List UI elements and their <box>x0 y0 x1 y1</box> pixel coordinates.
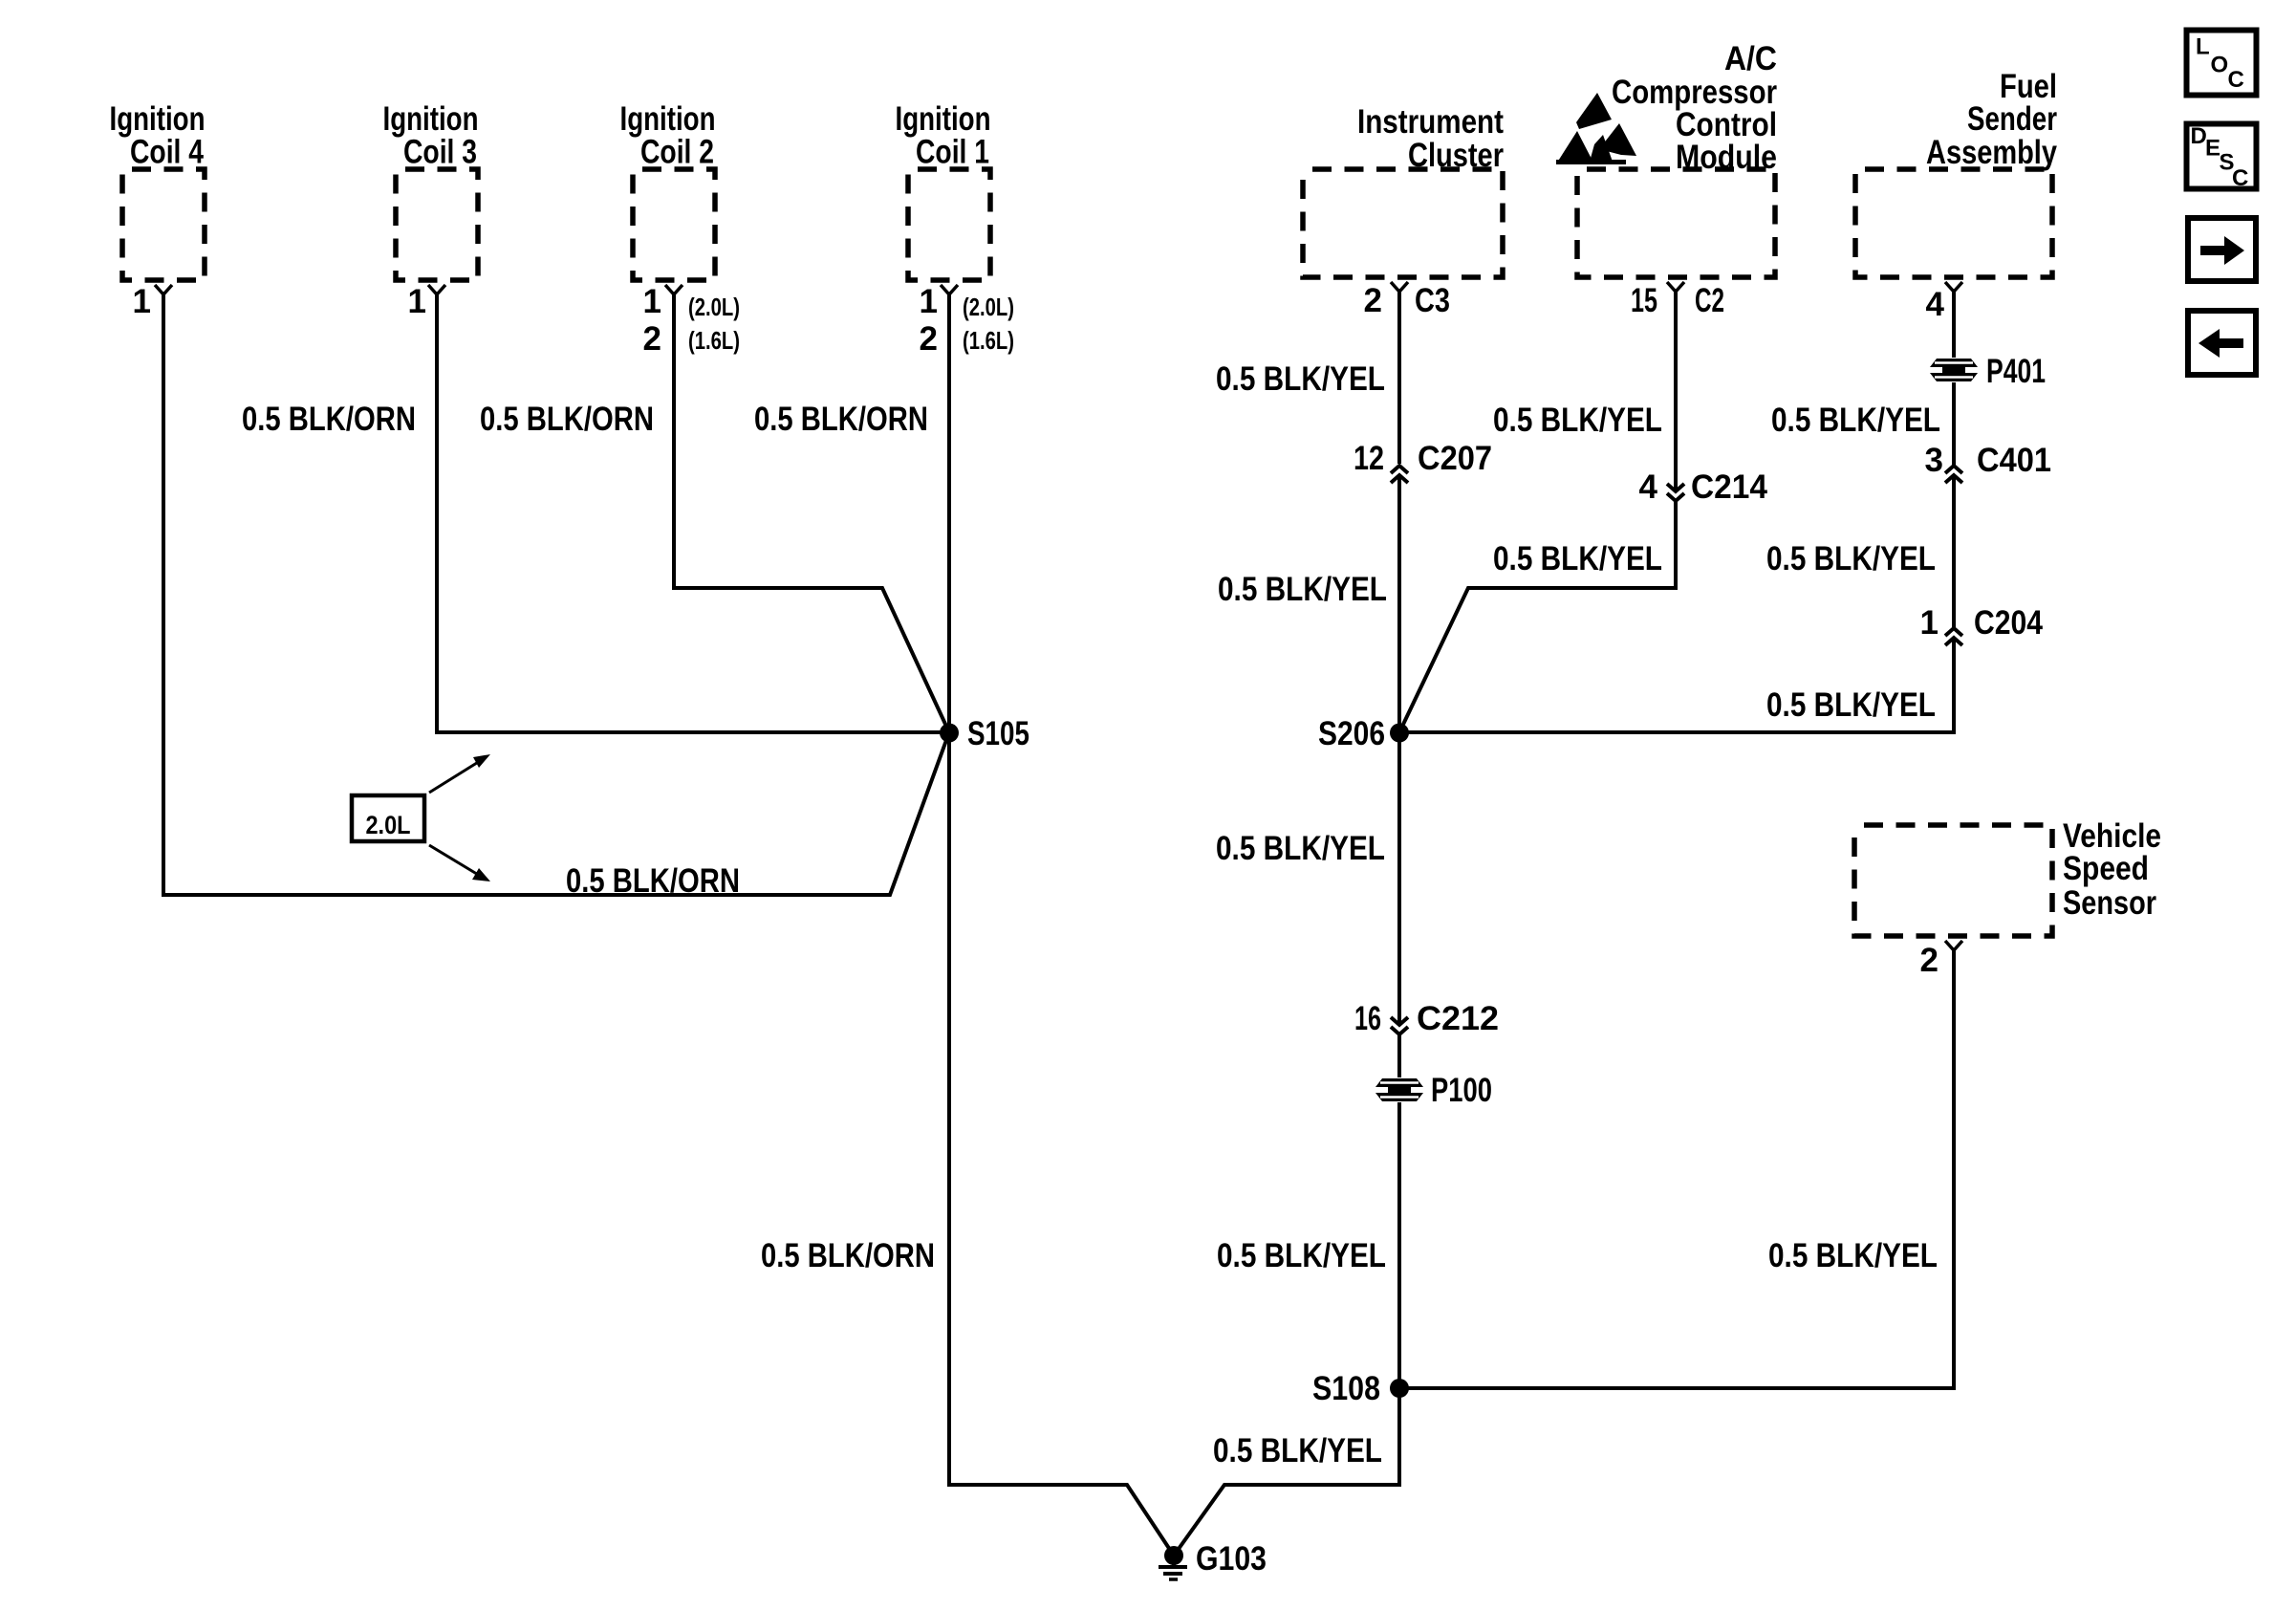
svg-text:1: 1 <box>133 283 151 320</box>
ignition coil 3 pin 1 <box>408 283 426 320</box>
legend box DESC <box>2187 123 2257 191</box>
vehicle speed sensor (component box) <box>1854 817 2161 950</box>
wire ignition coil 3 to S105 (0.5 BLK/ORN) <box>437 294 949 732</box>
wire S206 to fuel sender via C204/C401/P401 <box>1399 638 1954 732</box>
svg-text:0.5 BLK/ORN: 0.5 BLK/ORN <box>566 862 740 900</box>
svg-text:3: 3 <box>1925 442 1943 479</box>
A/C compressor control module (component box) <box>1577 40 1777 292</box>
legend box next-page arrow (right) <box>2188 218 2256 281</box>
svg-text:0.5 BLK/ORN: 0.5 BLK/ORN <box>242 401 416 438</box>
svg-text:P100: P100 <box>1431 1072 1492 1109</box>
svg-text:0.5 BLK/YEL: 0.5 BLK/YEL <box>1766 686 1936 724</box>
wire C401 to fuel sender segment <box>1952 292 1956 466</box>
svg-text:C2: C2 <box>1695 282 1724 319</box>
pass-through connector P100 symbol <box>1375 1077 1424 1102</box>
svg-text:L: L <box>2196 34 2210 60</box>
svg-text:Cluster: Cluster <box>1408 137 1504 174</box>
wire ignition coil 2 to S105 (0.5 BLK/ORN) <box>674 294 949 732</box>
connector C204 symbol (pin 1) <box>1945 628 1962 645</box>
svg-text:0.5 BLK/YEL: 0.5 BLK/YEL <box>1766 540 1936 577</box>
A/C module pin 15 <box>1631 282 1657 319</box>
instrument cluster pin 2 <box>1364 282 1382 319</box>
pass-through connector P401 symbol <box>1929 358 1979 382</box>
ignition coil 4 (component box) <box>110 100 206 294</box>
svg-text:S108: S108 <box>1312 1370 1380 1407</box>
2.0L callout arrow (to coil 4 wire) <box>429 845 490 881</box>
wire label 0.5 BLK/ORN (coil 3) <box>242 401 416 438</box>
svg-text:4: 4 <box>1639 468 1658 506</box>
svg-text:0.5 BLK/ORN: 0.5 BLK/ORN <box>761 1237 935 1274</box>
svg-text:0.5 BLK/YEL: 0.5 BLK/YEL <box>1213 1432 1382 1469</box>
svg-text:0.5 BLK/ORN: 0.5 BLK/ORN <box>480 401 654 438</box>
svg-text:C: C <box>2228 67 2244 93</box>
wire label 0.5 BLK/YEL (above S108) <box>1217 1237 1386 1274</box>
svg-text:2: 2 <box>1364 282 1382 319</box>
connector C204 name <box>1974 604 2043 642</box>
svg-text:O: O <box>2211 53 2229 78</box>
wire label 0.5 BLK/YEL (A/C lower) <box>1493 540 1662 577</box>
svg-text:2.0L: 2.0L <box>366 811 411 839</box>
ignition coil 3 (component box) <box>383 100 479 294</box>
svg-text:C204: C204 <box>1974 604 2043 642</box>
fuel sender pin 4 <box>1926 286 1945 323</box>
svg-text:Ignition: Ignition <box>383 100 479 138</box>
wire label 0.5 BLK/YEL (fuel mid) <box>1766 540 1936 577</box>
svg-text:0.5 BLK/YEL: 0.5 BLK/YEL <box>1216 830 1385 867</box>
wire C212 to S108 via P100 <box>1397 1034 1401 1388</box>
wire label 0.5 BLK/YEL (below S108) <box>1213 1432 1382 1469</box>
wire label 0.5 BLK/ORN (above G103) <box>761 1237 935 1274</box>
wire instrument cluster to C207 <box>1397 292 1401 464</box>
svg-text:(2.0L): (2.0L) <box>688 293 740 321</box>
2.0L callout arrow (to coil 3 wire) <box>429 754 490 793</box>
wire label 0.5 BLK/YEL (below S206) <box>1216 830 1385 867</box>
ignition coil 2 engine note (1.6L) <box>688 326 740 355</box>
svg-text:C401: C401 <box>1977 442 2051 479</box>
svg-text:S206: S206 <box>1318 715 1385 752</box>
connector C204 pin 1 label <box>1920 604 1939 642</box>
svg-text:1: 1 <box>920 283 938 320</box>
wire S108 to G103 (0.5 BLK/YEL) <box>1174 1388 1399 1556</box>
svg-text:Ignition: Ignition <box>896 100 991 138</box>
svg-text:S105: S105 <box>967 715 1029 752</box>
ESD-sensitive device icon <box>1556 93 1636 164</box>
wire C207 to C212 via S206 (0.5 BLK/YEL) <box>1397 475 1401 1025</box>
splice S108 name <box>1312 1370 1380 1407</box>
connector C214 pin 4 label <box>1639 468 1658 506</box>
wire label 0.5 BLK/YEL (cluster mid) <box>1218 571 1387 608</box>
svg-text:C3: C3 <box>1415 282 1450 319</box>
splice S206 (junction dot) <box>1390 724 1409 743</box>
svg-text:Module: Module <box>1676 139 1777 176</box>
svg-text:(2.0L): (2.0L) <box>963 293 1014 321</box>
legend box previous-page arrow (left) <box>2188 311 2256 375</box>
splice S105 (junction dot) <box>940 724 959 743</box>
svg-text:Sender: Sender <box>1967 100 2057 138</box>
ignition coil 2 (component box) <box>620 100 716 294</box>
wire label 0.5 BLK/ORN (2.0L note) <box>566 862 740 900</box>
svg-text:Instrument: Instrument <box>1357 103 1504 141</box>
A/C module connector C2 <box>1695 282 1724 319</box>
splice S206 name <box>1318 715 1385 752</box>
instrument cluster (component box) <box>1303 103 1504 292</box>
wire A/C module to C214 <box>1674 292 1678 491</box>
ignition coil 1 engine note (1.6L) <box>963 326 1014 355</box>
engine variant callout box 2.0L <box>352 795 424 841</box>
ignition coil 2 pin 1 <box>643 283 661 320</box>
ignition coil 4 pin 1 <box>133 283 151 320</box>
svg-text:0.5 BLK/YEL: 0.5 BLK/YEL <box>1218 571 1387 608</box>
svg-text:Assembly: Assembly <box>1926 134 2057 171</box>
ignition coil 1 (component box) <box>896 100 991 294</box>
svg-text:0.5 BLK/YEL: 0.5 BLK/YEL <box>1493 402 1662 439</box>
connector C207 name <box>1418 440 1492 477</box>
svg-text:Coil 3: Coil 3 <box>403 134 477 171</box>
svg-text:12: 12 <box>1354 440 1384 477</box>
connector P401 name <box>1986 353 2046 390</box>
svg-text:2: 2 <box>920 320 938 358</box>
svg-text:1: 1 <box>1920 604 1939 642</box>
svg-text:C207: C207 <box>1418 440 1492 477</box>
connector P100 name <box>1431 1072 1492 1109</box>
svg-text:1: 1 <box>408 283 426 320</box>
svg-text:Ignition: Ignition <box>620 100 716 138</box>
svg-text:15: 15 <box>1631 282 1657 319</box>
svg-text:Coil 4: Coil 4 <box>130 134 204 171</box>
ignition coil 1 engine note (2.0L) <box>963 293 1014 321</box>
svg-text:4: 4 <box>1926 286 1945 323</box>
vehicle speed sensor pin 2 <box>1920 942 1939 979</box>
wire label 0.5 BLK/YEL (fuel top) <box>1771 402 1940 439</box>
svg-text:C212: C212 <box>1417 1000 1499 1037</box>
wire C204 to C401 segment <box>1952 475 1956 628</box>
wire ignition coil 4 to S105 (0.5 BLK/ORN) <box>163 294 949 895</box>
connector C401 pin 3 label <box>1925 442 1943 479</box>
wire vehicle speed sensor to S108 (0.5 BLK/YEL) <box>1399 950 1954 1388</box>
svg-text:Coil 2: Coil 2 <box>640 134 714 171</box>
wire label 0.5 BLK/YEL (to C204) <box>1766 686 1936 724</box>
ignition coil 2 pin 2 <box>643 320 661 358</box>
svg-text:0.5 BLK/YEL: 0.5 BLK/YEL <box>1216 360 1385 398</box>
svg-text:0.5 BLK/YEL: 0.5 BLK/YEL <box>1768 1237 1938 1274</box>
svg-text:(1.6L): (1.6L) <box>688 326 740 355</box>
connector C214 symbol (pin 4) <box>1667 484 1684 501</box>
svg-text:0.5 BLK/YEL: 0.5 BLK/YEL <box>1771 402 1940 439</box>
svg-text:C: C <box>2232 165 2248 191</box>
svg-text:C214: C214 <box>1691 468 1768 506</box>
svg-text:(1.6L): (1.6L) <box>963 326 1014 355</box>
wire label 0.5 BLK/ORN (coil 2) <box>480 401 654 438</box>
svg-text:Sensor: Sensor <box>2063 884 2156 922</box>
wire label 0.5 BLK/YEL (speed sensor) <box>1768 1237 1938 1274</box>
wire S105 to G103 (0.5 BLK/ORN) <box>949 732 1174 1556</box>
connector C207 pin 12 label <box>1354 440 1384 477</box>
svg-text:2: 2 <box>1920 942 1939 979</box>
splice S108 (junction dot) <box>1390 1379 1409 1398</box>
fuel sender assembly (component box) <box>1855 68 2057 292</box>
splice S105 name <box>967 715 1029 752</box>
svg-text:Coil 1: Coil 1 <box>916 134 989 171</box>
wire label 0.5 BLK/ORN (coil 1) <box>754 401 928 438</box>
svg-text:2: 2 <box>643 320 661 358</box>
ground G103 symbol <box>1159 1546 1187 1579</box>
svg-text:A/C: A/C <box>1724 40 1777 77</box>
svg-text:P401: P401 <box>1986 353 2046 390</box>
svg-text:0.5 BLK/YEL: 0.5 BLK/YEL <box>1493 540 1662 577</box>
svg-text:Speed: Speed <box>2063 850 2149 887</box>
connector C214 name <box>1691 468 1768 506</box>
connector C212 symbol (pin 16) <box>1391 1017 1408 1034</box>
svg-text:0.5 BLK/YEL: 0.5 BLK/YEL <box>1217 1237 1386 1274</box>
ignition coil 1 pin 1 <box>920 283 938 320</box>
instrument cluster connector C3 <box>1415 282 1450 319</box>
wire label 0.5 BLK/YEL (cluster top) <box>1216 360 1385 398</box>
legend box LOC <box>2187 31 2257 96</box>
svg-text:0.5 BLK/ORN: 0.5 BLK/ORN <box>754 401 928 438</box>
svg-text:16: 16 <box>1354 1000 1381 1037</box>
connector C212 pin 16 label <box>1354 1000 1381 1037</box>
connector C207 symbol (pin 12) <box>1391 466 1408 483</box>
ground G103 name <box>1196 1540 1267 1577</box>
svg-text:1: 1 <box>643 283 661 320</box>
connector C401 symbol (pin 3) <box>1945 466 1962 483</box>
svg-text:Ignition: Ignition <box>110 100 206 138</box>
wire ignition coil 1 to S105 (0.5 BLK/ORN) <box>947 294 951 732</box>
ignition coil 2 engine note (2.0L) <box>688 293 740 321</box>
svg-text:G103: G103 <box>1196 1540 1267 1577</box>
connector C401 name <box>1977 442 2051 479</box>
wire C214 to S206 (0.5 BLK/YEL) <box>1399 501 1676 732</box>
wire label 0.5 BLK/YEL (A/C top) <box>1493 402 1662 439</box>
connector C212 name <box>1417 1000 1499 1037</box>
ignition coil 1 pin 2 <box>920 320 938 358</box>
